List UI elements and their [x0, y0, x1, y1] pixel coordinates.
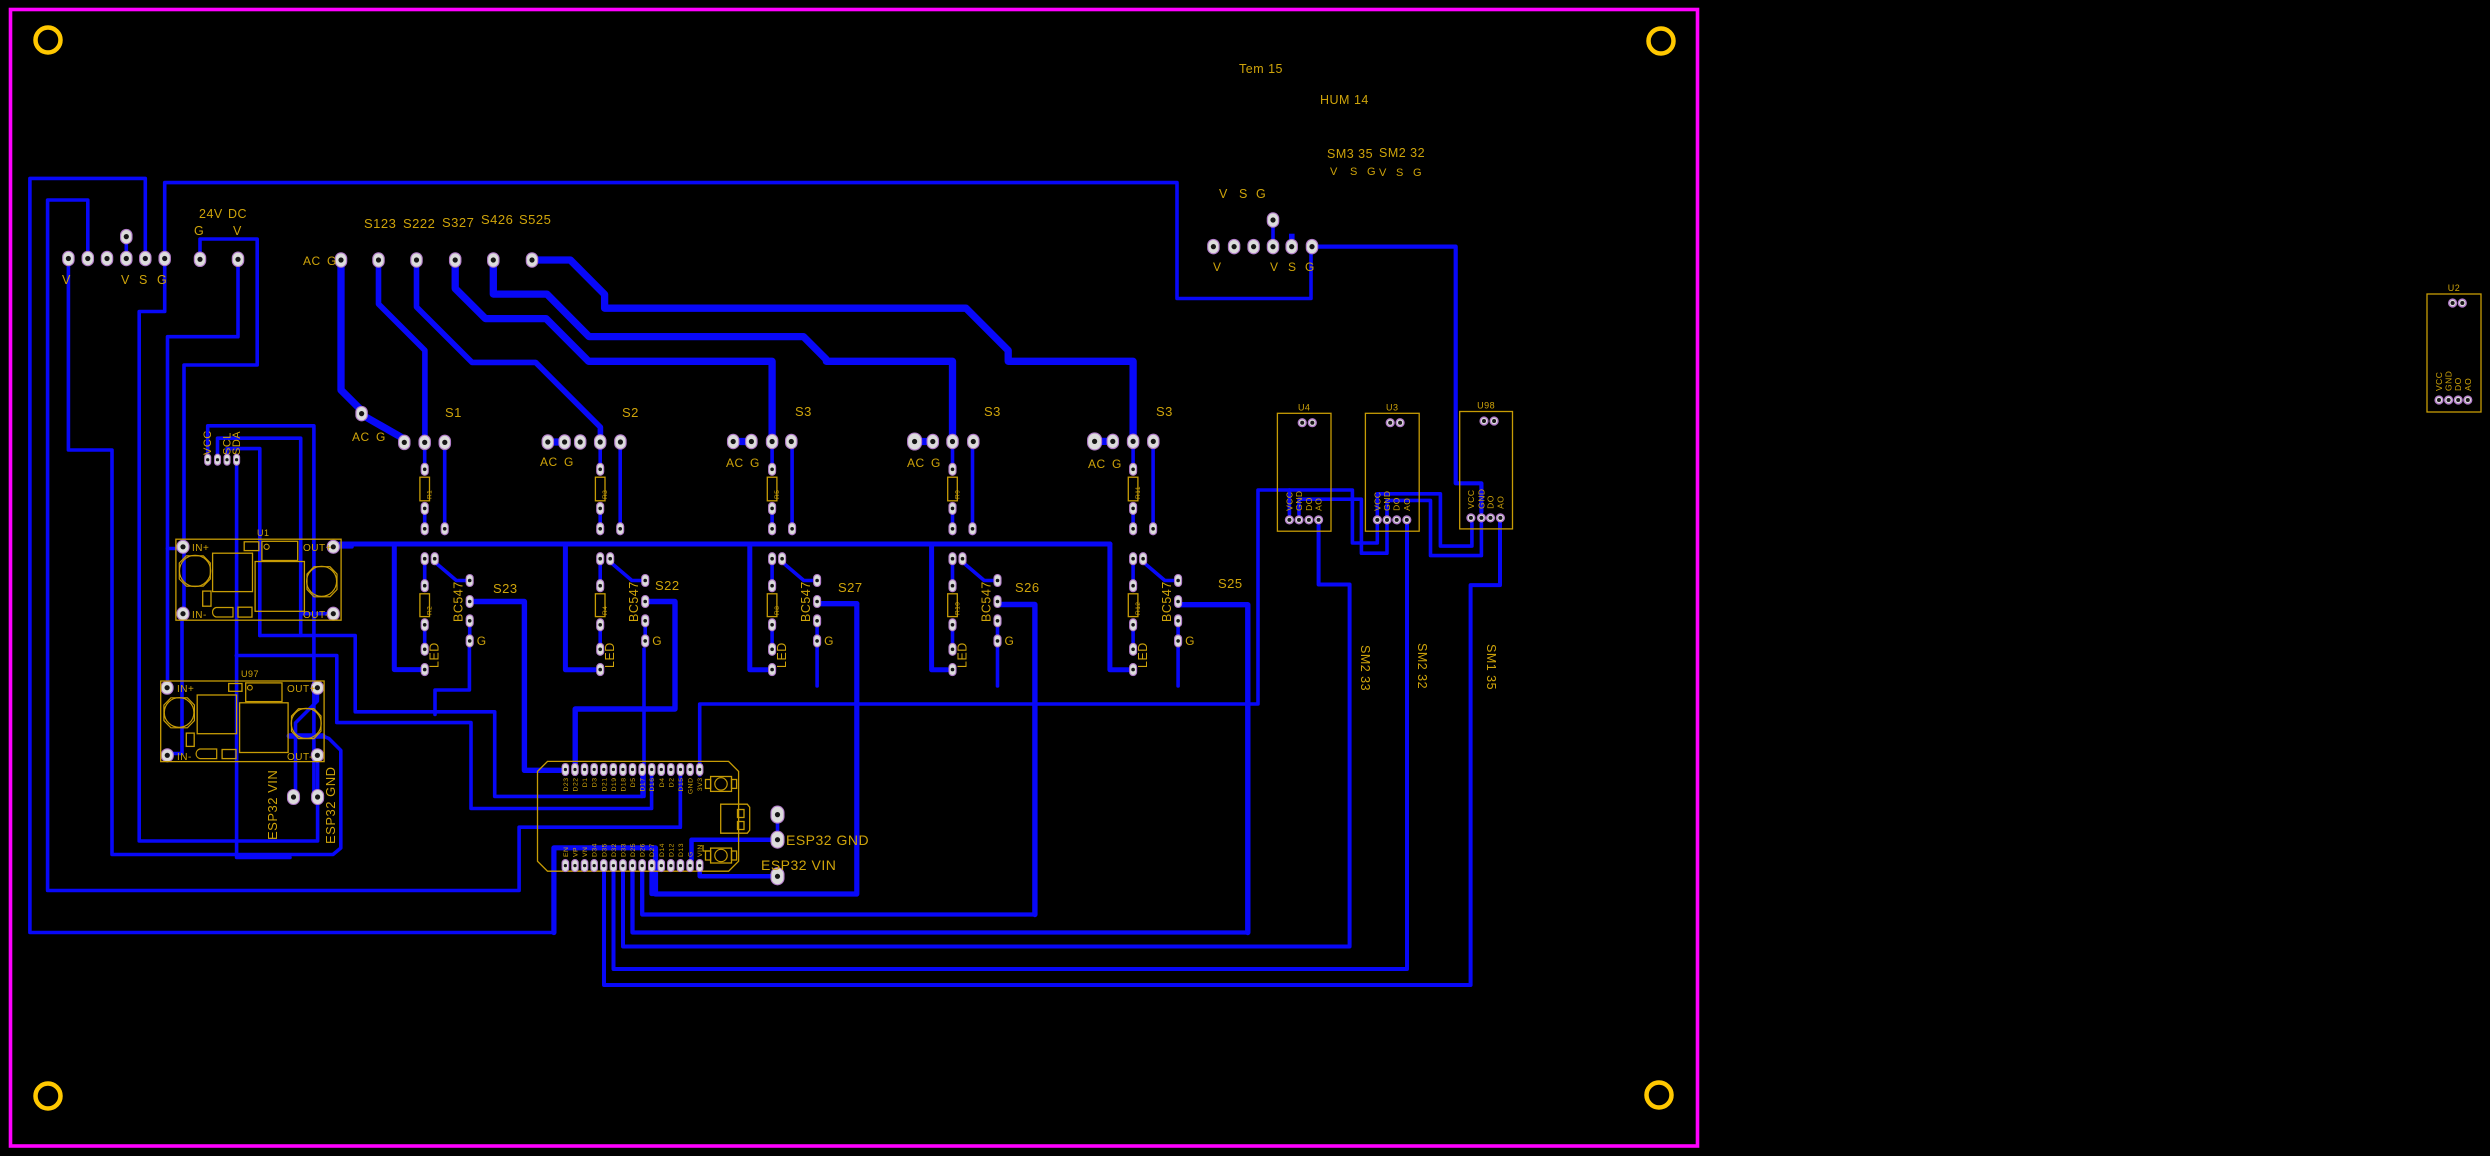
transistor Q3 pads	[769, 553, 821, 676]
svg-text:LED: LED	[956, 642, 970, 668]
label 24V DC	[194, 207, 247, 238]
svg-text:S23: S23	[493, 581, 518, 596]
wire net pad5 loop outer thin	[30, 178, 554, 932]
label SM2 33 vert	[1358, 645, 1372, 691]
wire branch V to U1 IN+	[168, 547, 179, 551]
svg-text:VCC: VCC	[1372, 491, 1382, 510]
wire GND chain U3-U98	[1387, 500, 1481, 555]
svg-text:D26: D26	[640, 843, 647, 857]
wire Q col b ch1	[423, 628, 427, 646]
svg-text:S426: S426	[481, 212, 513, 227]
AC G fan pads row	[335, 253, 537, 267]
svg-text:AC: AC	[303, 254, 321, 268]
wire net SDA	[237, 465, 290, 858]
svg-text:R12: R12	[1135, 602, 1142, 615]
svg-text:S3: S3	[984, 404, 1001, 419]
svg-text:VIN: VIN	[697, 844, 704, 857]
svg-text:G: G	[824, 634, 834, 648]
svg-text:G: G	[688, 851, 695, 857]
wire S2 pads link	[548, 438, 565, 445]
wire Q right link ch4	[996, 624, 1000, 638]
wire ESP32 VIN to pin VIN	[700, 871, 770, 876]
transistor Q2 pads	[597, 553, 649, 676]
wire Q right link ch1	[468, 624, 472, 638]
wire G net S25	[1176, 646, 1180, 686]
wire S3c pads link	[1095, 438, 1113, 445]
label V left	[62, 273, 71, 287]
transistor Q5 pads	[1130, 553, 1182, 676]
wire S327 route	[455, 266, 772, 435]
wire Q right link ch5	[1176, 624, 1180, 638]
svg-text:AO: AO	[2463, 378, 2473, 391]
svg-text:D14: D14	[659, 843, 666, 857]
connector 24VDC pads	[194, 252, 243, 266]
label AC G row1	[303, 254, 337, 268]
svg-text:G: G	[652, 634, 662, 648]
resistor R5 pads	[769, 463, 796, 535]
svg-text:VCC: VCC	[2434, 372, 2444, 391]
svg-text:D1: D1	[582, 778, 589, 788]
wire bus riser S3a	[750, 544, 767, 670]
svg-text:GND: GND	[1294, 491, 1304, 511]
wire G net S26	[996, 646, 1000, 686]
svg-text:D18: D18	[620, 778, 627, 792]
wire R col bottom ch4	[951, 511, 955, 526]
wire net i2c pad2	[218, 438, 301, 635]
wire SM2 33 (U4 AO - D33)	[623, 525, 1350, 947]
svg-text:G: G	[1413, 167, 1422, 179]
U97 pads	[161, 681, 323, 762]
wire Q col a ch3	[770, 562, 774, 582]
wire Q col a ch1	[423, 562, 427, 582]
svg-text:D17: D17	[640, 778, 647, 792]
wire ESP32 GND pads link	[776, 822, 780, 832]
wire S25 route	[1181, 605, 1248, 933]
svg-text:V: V	[1379, 167, 1387, 179]
svg-text:R10: R10	[955, 602, 962, 615]
labels V under right conn	[1213, 260, 1315, 274]
svg-text:D22: D22	[573, 778, 580, 792]
wire G net S27	[815, 646, 819, 686]
S3b pads	[908, 433, 979, 450]
wire side col ch3	[790, 448, 794, 526]
svg-text:D23: D23	[563, 778, 570, 792]
label S23	[493, 581, 518, 596]
wire U4 VCC riser	[1288, 490, 1292, 514]
svg-text:AC: AC	[907, 456, 925, 470]
wire S222 route	[417, 266, 601, 436]
labels VCC SCL SDA	[202, 430, 243, 455]
labels S1xx row	[364, 212, 551, 231]
svg-text:V: V	[1213, 260, 1222, 274]
svg-text:G: G	[327, 254, 337, 268]
label ESP32 GND right	[786, 832, 869, 848]
wire U97 OUT- to pad	[316, 762, 320, 790]
wire Q col b ch5	[1131, 628, 1135, 646]
label G ch1	[477, 634, 487, 648]
svg-text:ESP32 GND: ESP32 GND	[786, 832, 869, 848]
svg-text:S123: S123	[364, 216, 396, 231]
svg-text:AO: AO	[1402, 498, 1412, 511]
wire bus 544	[340, 542, 1110, 547]
svg-text:DO: DO	[1392, 497, 1402, 511]
svg-text:G: G	[1305, 260, 1315, 274]
svg-text:R1: R1	[427, 490, 434, 499]
svg-text:G: G	[1005, 634, 1015, 648]
wire bus riser S3b	[932, 544, 947, 670]
svg-text:LED: LED	[775, 642, 789, 668]
label S1	[445, 405, 462, 420]
wire Q diag ch4	[963, 562, 994, 581]
wire Q col b ch2	[598, 628, 602, 646]
ESP32 GND VIN pads	[771, 806, 784, 885]
ESP32 pin pads top row	[562, 764, 703, 776]
ESP32 pin pads bottom row	[562, 860, 703, 872]
svg-text:LED: LED	[603, 642, 617, 668]
svg-text:VCC: VCC	[202, 430, 214, 455]
wire R col top ch3	[770, 448, 774, 465]
svg-text:LED: LED	[1136, 642, 1150, 668]
svg-text:ESP32 VIN: ESP32 VIN	[265, 770, 280, 840]
label LED ch4	[956, 642, 970, 668]
label BC547 ch2	[627, 581, 641, 622]
resistor R1 outline	[420, 477, 434, 501]
labels U97 pins	[177, 669, 316, 763]
wire S525 route	[538, 260, 1133, 435]
svg-text:DO: DO	[1304, 497, 1314, 511]
svg-text:S: S	[1288, 260, 1297, 274]
wire side col ch4	[971, 448, 975, 526]
svg-text:S2: S2	[622, 405, 639, 420]
label AC G S3c	[1088, 457, 1122, 471]
svg-text:G: G	[477, 634, 487, 648]
svg-text:S25: S25	[1218, 576, 1243, 591]
wire S26 route	[1000, 605, 1035, 915]
label AC G S1mid	[352, 430, 386, 444]
svg-text:U97: U97	[241, 669, 259, 679]
board outline	[11, 10, 1698, 1147]
svg-text:V: V	[121, 273, 130, 287]
S3a pads	[728, 434, 798, 448]
wire S3b pads link	[915, 438, 933, 445]
svg-text:D34: D34	[592, 843, 599, 857]
label BC547 ch5	[1160, 581, 1174, 622]
labels V S G left	[121, 273, 167, 287]
resistor R3 outline	[595, 477, 609, 501]
wire GND chain U4-U3	[1299, 499, 1387, 553]
wire pad7 stub	[125, 242, 129, 252]
wire D17 pin stub	[640, 772, 644, 796]
svg-text:U1: U1	[257, 528, 270, 538]
svg-text:OUT-: OUT-	[303, 610, 329, 621]
module U3 outline	[1365, 402, 1419, 531]
wire R col top ch1	[423, 448, 427, 465]
label AC G S2	[540, 455, 574, 469]
svg-text:V: V	[1330, 166, 1338, 178]
svg-text:DO: DO	[2453, 377, 2463, 391]
svg-text:AC: AC	[540, 455, 558, 469]
wire right conn pad5 via link	[1290, 240, 1294, 251]
svg-text:R3: R3	[602, 490, 609, 499]
module ESP32 outline	[538, 761, 750, 871]
S1 pads	[399, 435, 451, 449]
wire U97 OUT+ net	[296, 694, 318, 790]
svg-text:S27: S27	[838, 580, 863, 595]
transistor Q1 pads	[421, 553, 473, 676]
resistor R10 outline	[948, 594, 962, 617]
svg-text:G: G	[194, 224, 204, 238]
label BC547 ch3	[799, 581, 813, 622]
label S3c	[1156, 404, 1173, 419]
label AC G S3a	[726, 456, 760, 470]
ESP32 wire pads below U97	[288, 790, 324, 805]
svg-text:R9: R9	[955, 490, 962, 499]
resistor R8 outline	[767, 594, 781, 617]
transistor Q4 pads	[949, 553, 1001, 676]
svg-text:BC547: BC547	[799, 581, 813, 622]
svg-text:LED: LED	[428, 642, 442, 668]
svg-text:S3: S3	[795, 404, 812, 419]
wire Q right link ch3	[815, 624, 819, 638]
connector J1 left pads	[63, 229, 171, 265]
wire R col bottom ch3	[770, 511, 774, 526]
wire D23 entry	[523, 768, 527, 772]
svg-text:OUT+: OUT+	[303, 543, 332, 554]
label ESP32 VIN vertical	[265, 770, 280, 840]
svg-text:R5: R5	[774, 490, 781, 499]
wire R col top ch5	[1131, 448, 1135, 465]
label SM1 35 vert	[1484, 644, 1498, 690]
svg-text:24V: 24V	[199, 207, 223, 221]
wire net V left conn to U97 OUT+	[68, 264, 340, 855]
svg-text:D25: D25	[630, 843, 637, 857]
svg-text:OUT+: OUT+	[287, 684, 316, 695]
label BC547 ch1	[452, 581, 466, 622]
svg-text:D33: D33	[620, 843, 627, 857]
wire S27 route pad	[819, 601, 857, 606]
svg-text:AC: AC	[352, 430, 370, 444]
svg-text:U3: U3	[1386, 402, 1399, 412]
svg-text:SM3 35: SM3 35	[1327, 147, 1373, 161]
wire Q right link ch2	[643, 624, 647, 638]
svg-text:D35: D35	[601, 843, 608, 857]
module U4 outline	[1277, 402, 1331, 531]
svg-text:IN+: IN+	[192, 543, 209, 554]
wire S23 route	[473, 602, 560, 771]
svg-text:R8: R8	[774, 606, 781, 615]
ESP32 pin labels top	[563, 778, 704, 795]
wire Q col a ch4	[951, 562, 955, 582]
svg-text:V: V	[233, 224, 242, 238]
wire staircase to D17	[260, 636, 642, 797]
resistor R1 pads	[421, 463, 448, 535]
labels V S G small rows	[1330, 166, 1422, 179]
svg-text:G: G	[1256, 187, 1266, 201]
svg-text:S26: S26	[1015, 580, 1040, 595]
svg-text:VN: VN	[582, 847, 589, 857]
svg-text:G: G	[157, 273, 167, 287]
svg-text:S3: S3	[1156, 404, 1173, 419]
svg-text:V: V	[1219, 187, 1228, 201]
mounting hole top-left	[36, 28, 61, 53]
module U3 top pads	[1386, 419, 1404, 427]
wire U1 OUT- link	[301, 612, 327, 616]
S3c pads	[1088, 433, 1159, 450]
svg-text:D21: D21	[601, 778, 608, 792]
label LED ch3	[775, 642, 789, 668]
label SM3 35	[1327, 147, 1373, 161]
svg-text:U2: U2	[2448, 283, 2461, 293]
label S3a	[795, 404, 812, 419]
wire D25 bus to S25	[633, 871, 1248, 933]
wire R col bottom ch1	[423, 511, 427, 526]
S2 pads	[542, 435, 626, 449]
svg-text:G: G	[750, 456, 760, 470]
wire top bus G to right connector	[165, 183, 1311, 299]
svg-text:IN-: IN-	[177, 752, 192, 763]
svg-text:S525: S525	[519, 212, 551, 227]
mounting hole top-right	[1649, 29, 1674, 54]
module U3 bottom pads	[1372, 491, 1412, 524]
svg-text:R4: R4	[602, 606, 609, 615]
svg-text:D15: D15	[678, 778, 685, 792]
ESP32 pin labels bottom	[563, 843, 704, 857]
svg-text:U4: U4	[1298, 402, 1311, 412]
mounting hole bottom-right	[1647, 1083, 1672, 1108]
module U4 bottom pads	[1284, 491, 1323, 524]
label S3b	[984, 404, 1001, 419]
label LED ch5	[1136, 642, 1150, 668]
svg-text:SM1 35: SM1 35	[1484, 644, 1498, 690]
label G ch4	[1005, 634, 1015, 648]
resistor R11 outline	[1128, 477, 1142, 501]
svg-text:SDA: SDA	[231, 431, 243, 455]
svg-text:BC547: BC547	[627, 581, 641, 622]
svg-text:ESP32 VIN: ESP32 VIN	[761, 857, 836, 873]
svg-text:D32: D32	[611, 843, 618, 857]
wire U97 right H	[289, 733, 323, 739]
svg-text:AO: AO	[1495, 496, 1505, 509]
wire net U1 IN- to U97 IN-	[170, 620, 182, 754]
svg-text:BC547: BC547	[452, 581, 466, 622]
svg-text:VCC: VCC	[1466, 489, 1476, 508]
svg-text:VCC: VCC	[1284, 491, 1294, 510]
svg-text:S: S	[1350, 166, 1358, 178]
svg-text:ESP32 GND: ESP32 GND	[323, 767, 338, 844]
svg-text:EN: EN	[563, 847, 570, 857]
svg-text:HUM 14: HUM 14	[1320, 93, 1369, 107]
wire Q diag ch3	[782, 562, 813, 581]
resistor R12 outline	[1128, 594, 1142, 617]
wire bus riser S25	[1110, 544, 1128, 670]
wire R col top ch4	[951, 448, 955, 465]
svg-text:G: G	[1367, 166, 1376, 178]
wire Q diag ch1	[435, 562, 466, 581]
wire net SDA to D16 staircase	[236, 656, 651, 809]
label G ch2	[652, 634, 662, 648]
svg-text:R2: R2	[427, 606, 434, 615]
svg-text:IN-: IN-	[192, 610, 207, 621]
connector right pads	[1208, 213, 1318, 254]
svg-text:GND: GND	[688, 778, 695, 795]
wire R col top ch2	[598, 448, 602, 465]
svg-text:D3: D3	[592, 778, 599, 788]
label BC547 ch4	[980, 581, 994, 622]
label Tem 15	[1239, 62, 1283, 76]
label LED ch1	[428, 642, 442, 668]
svg-text:G: G	[1112, 457, 1122, 471]
wire net S27 chain thick	[554, 604, 857, 933]
svg-text:R11: R11	[1135, 486, 1142, 499]
svg-text:D4: D4	[659, 778, 666, 788]
label S22	[655, 578, 680, 593]
resistor R5 outline	[767, 477, 781, 501]
mounting hole bottom-left	[36, 1084, 61, 1109]
wire net 24V G to U1 IN-	[184, 239, 257, 607]
wire S123 route	[379, 266, 425, 436]
svg-text:V: V	[62, 273, 71, 287]
module U2 outline	[2427, 283, 2481, 412]
svg-text:GND: GND	[1382, 491, 1392, 511]
svg-text:G: G	[1185, 634, 1195, 648]
label S25	[1218, 576, 1243, 591]
svg-text:D5: D5	[630, 778, 637, 788]
wire net VCC i2c	[208, 426, 314, 792]
wire AC G trunk	[341, 266, 362, 411]
wire bus riser S2	[565, 544, 595, 670]
wire right conn G to U98 GND	[1318, 247, 1481, 512]
wire VCC chain U4-U3	[1289, 490, 1377, 543]
svg-text:D2: D2	[668, 778, 675, 788]
resistor R4 outline	[595, 594, 609, 617]
wire side col ch2	[618, 448, 622, 526]
wire bus OUT+ U1	[333, 544, 352, 547]
svg-text:S: S	[1239, 187, 1248, 201]
wire G net S23	[435, 644, 469, 715]
svg-text:S: S	[139, 273, 148, 287]
svg-text:DO: DO	[1486, 495, 1496, 509]
labels U1 pins	[192, 528, 332, 621]
svg-text:S327: S327	[442, 215, 474, 230]
svg-text:D16: D16	[649, 778, 656, 792]
wire net pad2 to D15 loop	[48, 200, 681, 891]
label SM2 32 top	[1379, 146, 1425, 160]
wire D27 pin descent	[652, 871, 656, 894]
module U1 outline	[176, 539, 341, 620]
svg-text:3V3: 3V3	[697, 778, 704, 792]
resistor R9 pads	[949, 463, 976, 535]
wire D15 chain	[678, 772, 682, 827]
label ESP32 GND vertical	[323, 767, 338, 844]
wire Q col b ch4	[951, 628, 955, 646]
svg-text:S22: S22	[655, 578, 680, 593]
wire SM1 35 (U98 AO - D35)	[604, 523, 1500, 985]
wire S426 route	[493, 266, 952, 435]
module U4 top pads	[1298, 419, 1316, 427]
svg-text:U98: U98	[1477, 401, 1495, 411]
via near right connector	[1289, 234, 1295, 240]
wire Q col b ch3	[770, 628, 774, 646]
wire SM2 32 (U3 AO - D32)	[614, 525, 1408, 969]
label AC G S3b	[907, 456, 941, 470]
svg-text:SM2 32: SM2 32	[1415, 643, 1429, 689]
svg-text:S222: S222	[403, 216, 435, 231]
svg-text:G: G	[376, 430, 386, 444]
wire G net S22	[642, 649, 646, 796]
module U98 outline	[1460, 401, 1513, 529]
svg-text:G: G	[931, 456, 941, 470]
label G ch5	[1185, 634, 1195, 648]
